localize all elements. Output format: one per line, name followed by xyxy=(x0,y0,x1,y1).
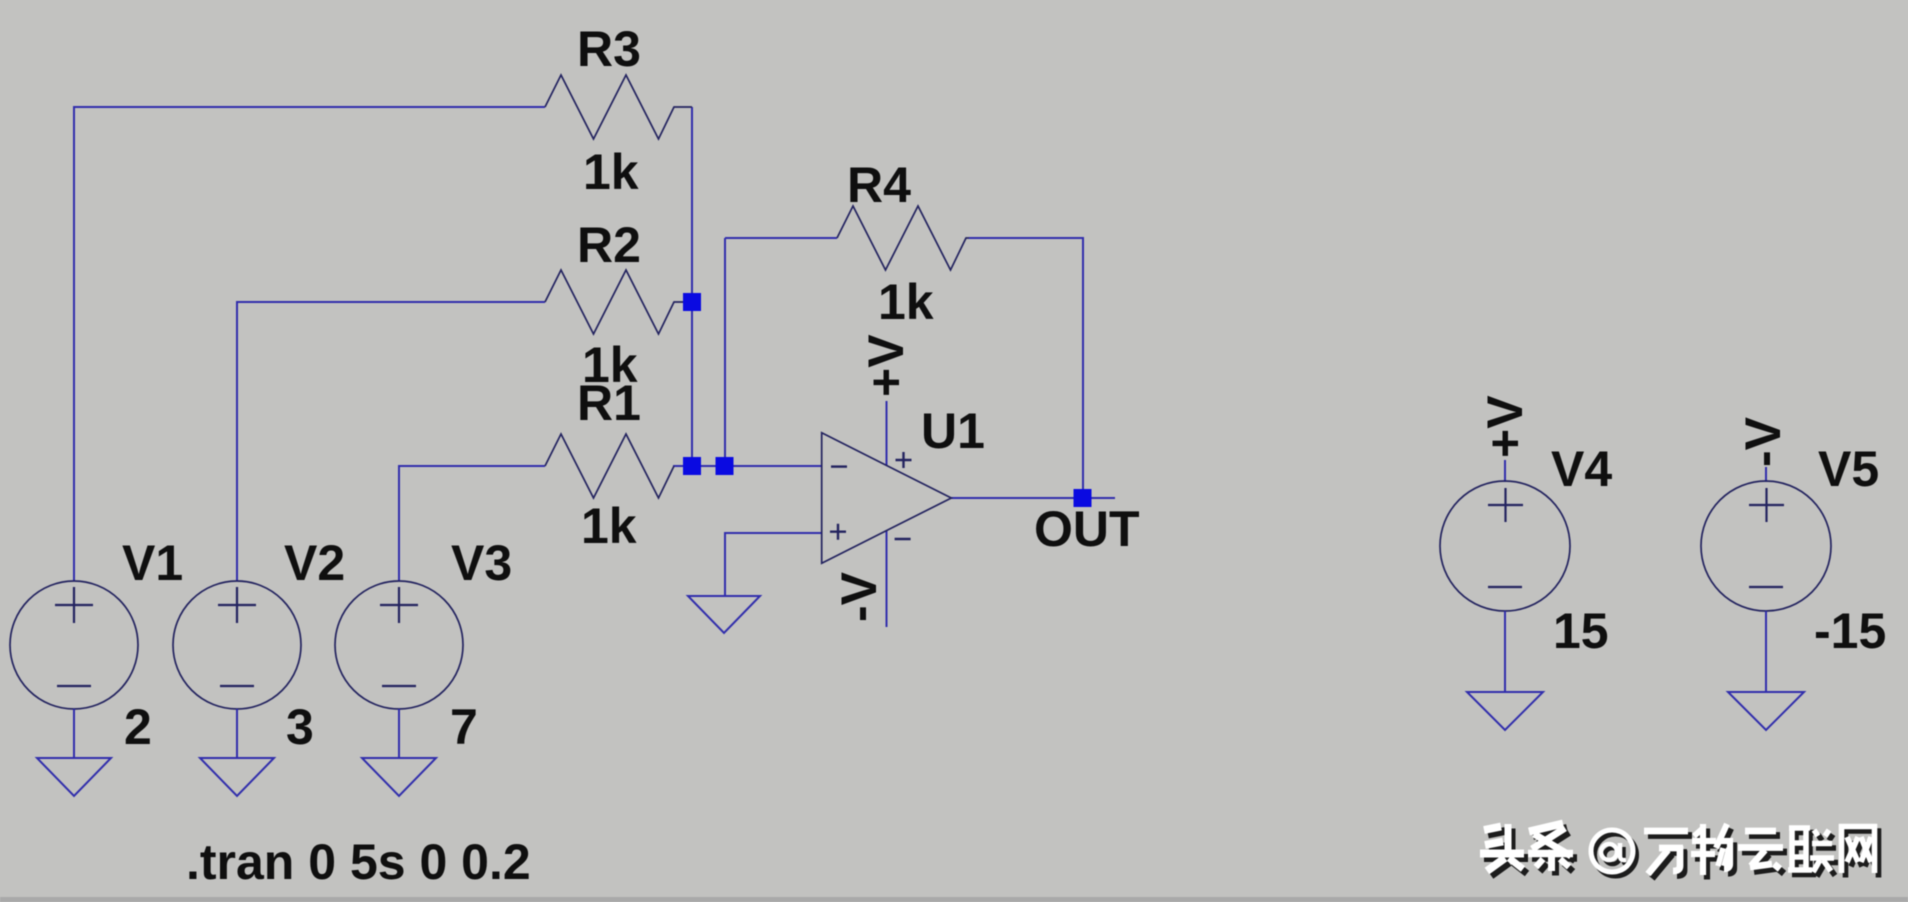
svg-text:7: 7 xyxy=(450,699,478,755)
wire V2 to ground xyxy=(236,709,238,758)
ground V5 xyxy=(1728,692,1804,730)
V2 plus mark xyxy=(218,587,256,623)
resistor R4 zigzag xyxy=(837,206,969,270)
op-amp U1 triangle xyxy=(822,433,952,563)
svg-text:-15: -15 xyxy=(1814,603,1886,659)
ground V3 xyxy=(362,758,436,796)
svg-text:3: 3 xyxy=(286,699,314,755)
wire bus R3/R2/R1 node vertical xyxy=(691,107,693,466)
V2 minus mark xyxy=(220,685,254,687)
wire feedback left vertical xyxy=(724,238,726,466)
wire V5 to ground xyxy=(1765,611,1767,692)
wire V4 to ground xyxy=(1504,611,1506,692)
resistor R1 zigzag xyxy=(545,434,674,498)
node OUT junction xyxy=(1074,489,1092,507)
svg-text:R1: R1 xyxy=(577,375,641,431)
wire V2 to R2 left xyxy=(237,302,545,581)
svg-text:-V: -V xyxy=(1735,416,1791,467)
voltage source V5 circle xyxy=(1701,481,1831,611)
V5 minus mark xyxy=(1749,586,1783,588)
svg-text:R4: R4 xyxy=(847,157,911,213)
node R1-bus junction xyxy=(683,457,701,475)
V5 plus mark xyxy=(1749,488,1784,522)
op-amp V- mark xyxy=(895,538,911,540)
op-amp inverting mark xyxy=(831,465,847,467)
wire V1 to ground xyxy=(73,709,75,758)
svg-text:15: 15 xyxy=(1553,603,1609,659)
wire V4 flag stub xyxy=(1504,460,1506,482)
wire R4 right to OUT xyxy=(969,238,1083,498)
resistor R3 zigzag xyxy=(545,75,692,139)
svg-text:R3: R3 xyxy=(577,21,641,77)
node R2-bus junction xyxy=(683,293,701,311)
voltage source V2 circle xyxy=(173,581,301,709)
svg-text:.tran 0 5s 0 0.2: .tran 0 5s 0 0.2 xyxy=(186,834,531,890)
V1 plus mark xyxy=(55,587,93,623)
wire V5 flag stub xyxy=(1765,467,1767,482)
voltage source V4 circle xyxy=(1440,481,1570,611)
V3 plus mark xyxy=(380,587,418,623)
svg-text:OUT: OUT xyxy=(1034,501,1140,557)
ground V1 xyxy=(37,758,111,796)
node feedback junction xyxy=(716,457,734,475)
V3 minus mark xyxy=(382,685,416,687)
op-amp noninverting mark xyxy=(830,524,846,540)
wire V3 to R1 left xyxy=(399,466,545,581)
wire V1 to R3 left xyxy=(74,107,545,581)
watermark shadow layer xyxy=(1484,828,1881,880)
wire noninverting input xyxy=(725,533,822,596)
resistor R2 zigzag xyxy=(545,270,692,334)
ground V2 xyxy=(200,758,274,796)
svg-text:1k: 1k xyxy=(878,274,934,330)
wire R4 left lead xyxy=(725,237,837,239)
wire output xyxy=(951,497,1115,499)
svg-text:2: 2 xyxy=(124,699,152,755)
watermark white layer xyxy=(1480,824,1877,876)
svg-text:+V: +V xyxy=(858,334,914,397)
watermark at sign shadow xyxy=(1595,834,1637,876)
svg-text:V3: V3 xyxy=(451,535,512,591)
wire opamp V- pin xyxy=(886,531,888,627)
bottom bar xyxy=(0,897,1908,902)
svg-text:R2: R2 xyxy=(577,217,641,273)
voltage source V1 circle xyxy=(10,581,138,709)
voltage source V3 circle xyxy=(335,581,463,709)
svg-text:V2: V2 xyxy=(284,535,345,591)
V4 plus mark xyxy=(1488,488,1523,522)
svg-text:V5: V5 xyxy=(1818,441,1879,497)
wire opamp V+ pin xyxy=(886,401,888,465)
watermark at sign xyxy=(1591,830,1633,872)
svg-text:1k: 1k xyxy=(581,498,637,554)
svg-text:-V: -V xyxy=(831,571,887,622)
op-amp V+ mark xyxy=(896,452,912,468)
svg-text:+V: +V xyxy=(1477,395,1533,458)
ground V4 xyxy=(1467,692,1543,730)
svg-text:V1: V1 xyxy=(122,535,183,591)
wire inverting input xyxy=(673,465,822,467)
wire V3 to ground xyxy=(398,709,400,758)
ground noninverting xyxy=(688,596,760,633)
svg-text:V4: V4 xyxy=(1551,441,1612,497)
V4 minus mark xyxy=(1488,586,1522,588)
svg-text:1k: 1k xyxy=(583,144,639,200)
svg-text:U1: U1 xyxy=(921,403,985,459)
V1 minus mark xyxy=(57,685,91,687)
